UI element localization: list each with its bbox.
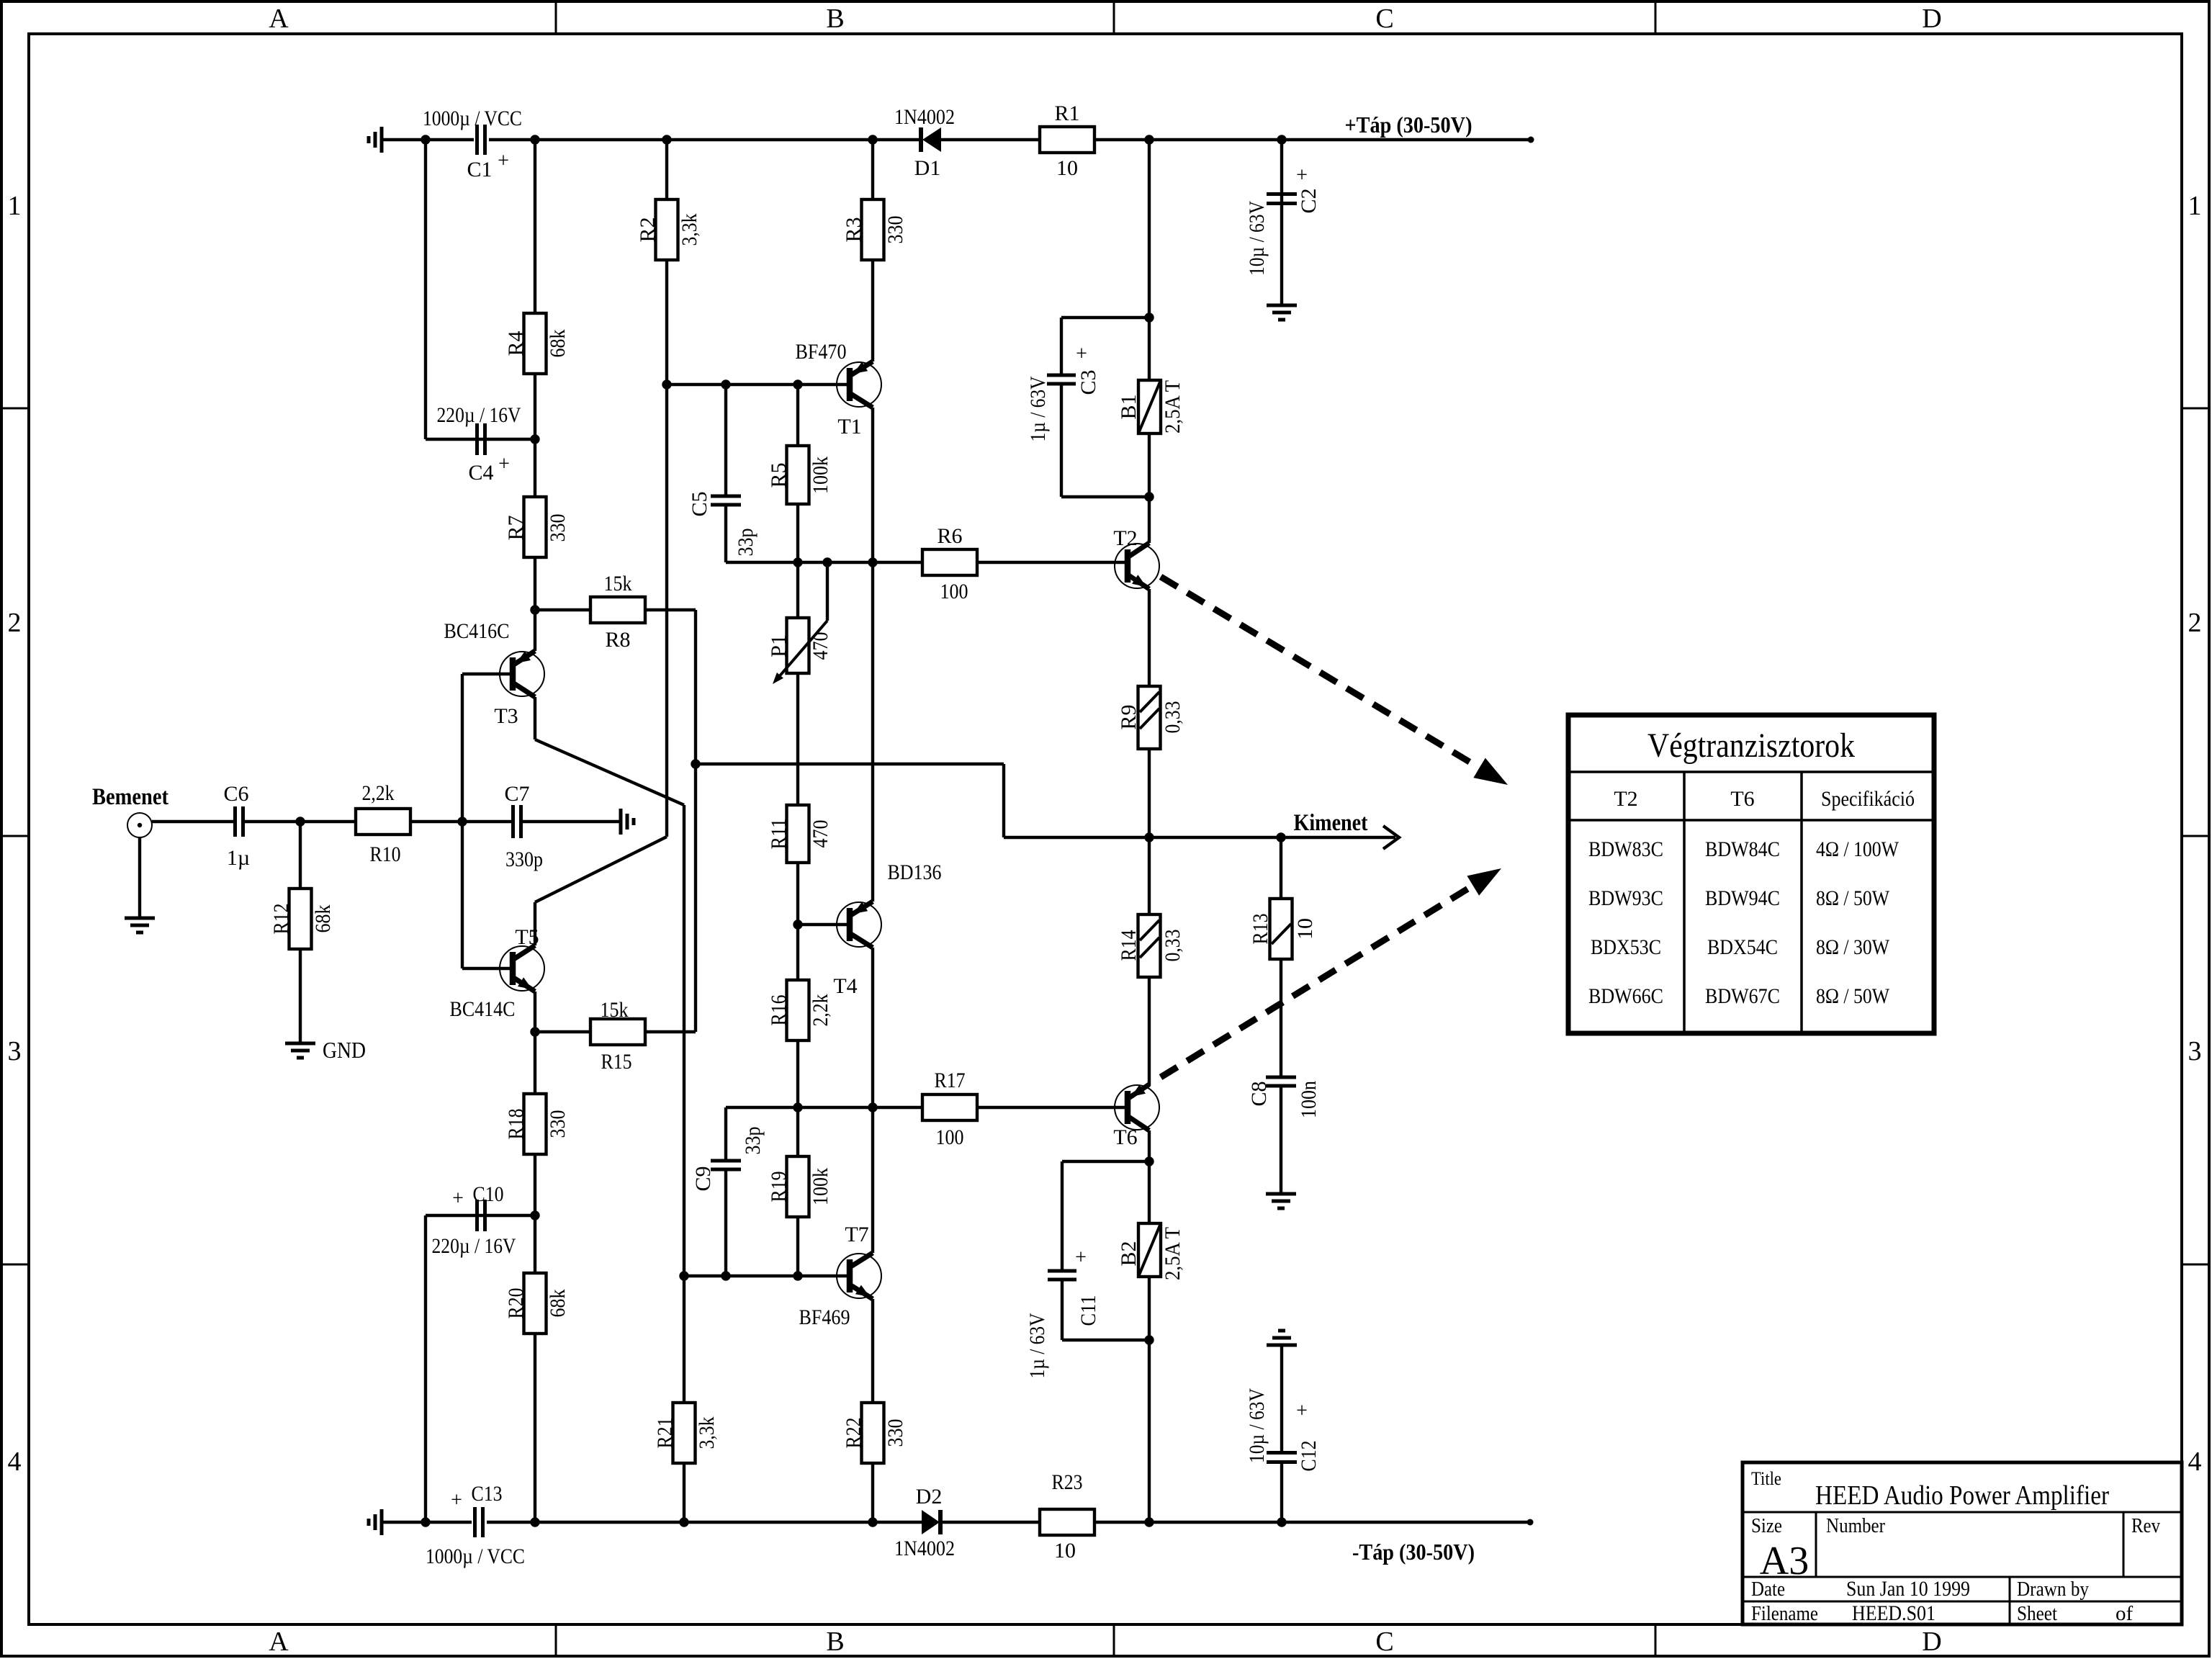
wire T3 base to input node xyxy=(461,674,464,822)
transistor T2 (output driver) xyxy=(1115,543,1159,589)
junction node P1 wiper xyxy=(822,557,832,567)
junction node +rail/R2 xyxy=(662,135,671,144)
wire y781 line to R6 xyxy=(798,561,922,564)
svg-text:1µ / 63V: 1µ / 63V xyxy=(1025,1313,1049,1378)
svg-text:T2: T2 xyxy=(1113,526,1137,550)
wire R11 bottom lead xyxy=(796,863,799,925)
label T3 xyxy=(494,704,518,728)
wire T1 collector up to R3 xyxy=(871,260,874,361)
capacitor C4 plates xyxy=(477,423,485,455)
wire C3 top horizontal xyxy=(1061,316,1149,319)
label C8 xyxy=(1247,1081,1271,1106)
column label B bottom xyxy=(826,1627,844,1657)
wire B1 column top xyxy=(1148,140,1151,380)
fuse B2 body xyxy=(1138,1223,1161,1277)
title block title row divider xyxy=(1743,1511,2182,1514)
label T3 type BC416C xyxy=(444,619,510,643)
svg-text:B: B xyxy=(826,1627,844,1657)
capacitor C13 plates xyxy=(475,1507,483,1537)
svg-text:BDW83C: BDW83C xyxy=(1588,837,1663,861)
svg-text:+: + xyxy=(1075,1246,1087,1269)
svg-text:68k: 68k xyxy=(311,905,335,933)
wire C10 node to R20 xyxy=(534,1215,536,1273)
wire R7 to T3 node xyxy=(534,557,536,610)
svg-text:C13: C13 xyxy=(472,1482,503,1506)
wire +rail ground to C1 xyxy=(382,138,474,141)
label R10 xyxy=(370,842,401,866)
label C5 xyxy=(688,491,711,516)
svg-text:10µ / 63V: 10µ / 63V xyxy=(1245,1388,1269,1463)
svg-text:A: A xyxy=(269,4,289,34)
diode D2 1N4002 xyxy=(922,1510,940,1534)
resistor R7 body xyxy=(524,497,547,557)
title block label Sheet xyxy=(2017,1602,2057,1625)
capacitor C6 plates xyxy=(235,806,243,837)
svg-text:330: 330 xyxy=(884,1419,907,1447)
svg-text:BDW94C: BDW94C xyxy=(1705,886,1780,910)
svg-text:of: of xyxy=(2116,1602,2134,1625)
wire R6 to T2 base xyxy=(977,561,1128,564)
wire C3 bottom horizontal xyxy=(1061,495,1149,498)
svg-text:C1: C1 xyxy=(467,158,492,181)
right band divider 2|3 xyxy=(2182,835,2209,837)
label T5 xyxy=(515,925,539,949)
resistor R15 body xyxy=(590,1019,645,1045)
svg-text:0,33: 0,33 xyxy=(1161,930,1184,962)
svg-text:BDX53C: BDX53C xyxy=(1591,935,1661,959)
svg-text:8Ω / 50W: 8Ω / 50W xyxy=(1816,886,1890,910)
wire T5 collector diagonal xyxy=(535,837,667,902)
resistor R6 body xyxy=(922,549,977,575)
bottom band divider B|C xyxy=(1113,1624,1115,1658)
resistor R18 body xyxy=(524,1094,547,1154)
label C11 value xyxy=(1025,1313,1049,1378)
label C10 polarity + xyxy=(452,1187,464,1210)
label C5 value 33p xyxy=(734,529,757,557)
ground symbol at +rail left end xyxy=(369,127,382,153)
label C13 polarity + xyxy=(451,1489,462,1511)
svg-text:2,2k: 2,2k xyxy=(362,781,395,805)
label C8 value 100n xyxy=(1297,1081,1321,1118)
label C2 value xyxy=(1245,201,1269,276)
right band divider 1|2 xyxy=(2182,408,2209,410)
svg-text:Végtranzisztorok: Végtranzisztorok xyxy=(1647,727,1855,765)
label R19 value 100k xyxy=(809,1168,832,1205)
wire R12 top lead xyxy=(299,822,302,889)
label R23 value 10 xyxy=(1054,1539,1076,1563)
svg-text:R11: R11 xyxy=(767,819,791,850)
wire T1 base line xyxy=(667,383,850,386)
resistor R22 body xyxy=(862,1403,884,1463)
wire C8 to ground xyxy=(1280,1086,1282,1194)
label D1 xyxy=(914,156,941,180)
ground symbol below C2 xyxy=(1267,305,1297,320)
row label 4 left xyxy=(8,1447,22,1477)
wire C10 horizontal xyxy=(426,1214,535,1217)
label C9 xyxy=(691,1166,715,1191)
label T4 xyxy=(833,974,857,998)
label T1 xyxy=(837,415,861,439)
ground symbol right of C7 xyxy=(621,809,634,835)
wire P1 bottom to R11 xyxy=(796,673,799,805)
svg-text:R5: R5 xyxy=(767,462,791,487)
label R17 xyxy=(935,1069,966,1092)
junction node R18/R20/C10 xyxy=(530,1210,539,1220)
wire R19 top lead xyxy=(796,1107,799,1156)
wire C2 stub xyxy=(1280,140,1283,305)
svg-text:+: + xyxy=(498,150,509,172)
svg-text:+Táp (30-50V): +Táp (30-50V) xyxy=(1345,112,1473,138)
label T5 type BC414C xyxy=(450,997,516,1021)
svg-text:Specifikáció: Specifikáció xyxy=(1821,787,1915,811)
title block label Drawn by xyxy=(2017,1578,2089,1601)
label R15 xyxy=(601,1050,632,1074)
resistor R11 body xyxy=(787,805,809,863)
wire T5 base xyxy=(462,967,513,970)
svg-text:8Ω / 50W: 8Ω / 50W xyxy=(1816,984,1890,1008)
svg-text:Date: Date xyxy=(1751,1578,1785,1601)
label R18 value 330 xyxy=(546,1110,570,1138)
wire output to R13 xyxy=(1280,837,1282,899)
capacitor C12 plates xyxy=(1267,1453,1297,1462)
wire R8 left lead xyxy=(535,608,590,611)
ground symbol below C8 xyxy=(1266,1194,1296,1208)
svg-text:100k: 100k xyxy=(809,1168,832,1205)
top band divider C|D xyxy=(1655,1,1657,34)
label R13 value 10 xyxy=(1293,918,1317,940)
capacitor C7 plates xyxy=(513,805,521,838)
svg-text:D1: D1 xyxy=(914,156,941,180)
svg-text:C8: C8 xyxy=(1247,1081,1271,1106)
label R8 xyxy=(605,628,630,652)
wire T2 collector up xyxy=(1148,497,1151,543)
svg-text:3,3k: 3,3k xyxy=(695,1417,719,1449)
svg-text:15k: 15k xyxy=(604,572,632,595)
junction node +rail/R4 xyxy=(530,135,539,144)
bottom band divider A|B xyxy=(555,1624,557,1658)
label C7 value 330p xyxy=(505,848,543,871)
table header T2 xyxy=(1614,787,1637,811)
capacitor C3 plates xyxy=(1047,375,1076,384)
junction node feedback tap xyxy=(691,759,700,768)
wire T2 emitter down xyxy=(1148,589,1151,686)
svg-text:B: B xyxy=(826,4,844,34)
table Vegtranzisztorok outer border xyxy=(1568,715,1934,1033)
svg-text:R13: R13 xyxy=(1249,914,1272,945)
svg-text:T4: T4 xyxy=(833,974,857,998)
svg-text:4: 4 xyxy=(8,1447,22,1477)
label Bemenet xyxy=(92,784,168,810)
svg-text:+: + xyxy=(451,1489,462,1511)
wire T4 emitter down xyxy=(871,948,874,1107)
svg-text:C10: C10 xyxy=(473,1182,504,1206)
right band divider 3|4 xyxy=(2182,1264,2209,1266)
junction node +rail/C2 xyxy=(1277,135,1286,144)
wire -rail D2 to R23 xyxy=(940,1521,1040,1524)
label R16 xyxy=(767,995,791,1026)
wire C11 top horizontal xyxy=(1062,1160,1149,1163)
ground symbol below input xyxy=(125,918,155,932)
transistor T5 BC414C xyxy=(500,945,544,992)
table title row divider xyxy=(1568,770,1934,773)
column label D bottom xyxy=(1922,1627,1941,1657)
table cell 8Ω / 30W xyxy=(1816,935,1890,959)
label GND xyxy=(323,1037,366,1063)
label +Tap rail xyxy=(1345,112,1473,138)
wire C10-branch vertical x591 xyxy=(424,1215,427,1522)
svg-text:+: + xyxy=(1076,343,1087,365)
svg-text:2,5A T: 2,5A T xyxy=(1161,380,1184,433)
table header Specifikacio xyxy=(1821,787,1915,811)
label R13 xyxy=(1249,914,1272,945)
resistor R17 body xyxy=(922,1094,977,1120)
table cell BDW67C xyxy=(1705,984,1780,1008)
svg-text:P1: P1 xyxy=(767,634,791,657)
svg-text:1000µ / VCC: 1000µ / VCC xyxy=(426,1545,525,1568)
wire R15 left lead xyxy=(535,1030,590,1033)
svg-text:R14: R14 xyxy=(1117,930,1141,961)
wire T6 collector down xyxy=(1148,1130,1151,1161)
wire T3 collector vertical x950 xyxy=(683,805,685,1403)
svg-text:3: 3 xyxy=(2188,1036,2202,1066)
svg-text:B1: B1 xyxy=(1117,394,1141,419)
row label 3 right xyxy=(2188,1036,2202,1066)
svg-text:68k: 68k xyxy=(546,330,570,358)
svg-text:2,5A T: 2,5A T xyxy=(1161,1227,1184,1280)
resistor R9 body xyxy=(1138,686,1161,749)
svg-text:330p: 330p xyxy=(505,848,543,871)
junction node -rail/R22 xyxy=(868,1517,877,1527)
wire T5 base to input node xyxy=(461,822,464,968)
resistor R13 body xyxy=(1270,899,1292,959)
capacitor C11 plates xyxy=(1048,1271,1076,1280)
svg-text:R16: R16 xyxy=(767,995,791,1026)
potentiometer P1 wiper arrow xyxy=(773,621,827,684)
label R6 value 100 xyxy=(940,580,968,603)
label R3 value 330 xyxy=(884,216,907,244)
svg-text:R7: R7 xyxy=(504,515,528,540)
svg-text:R20: R20 xyxy=(504,1288,528,1319)
table cell 8Ω / 50W xyxy=(1816,886,1890,910)
transistor T3 BC416C xyxy=(500,651,544,697)
label R7 value 330 xyxy=(546,514,570,542)
label C9 value 33p xyxy=(741,1127,765,1155)
svg-text:330: 330 xyxy=(546,514,570,542)
svg-text:+: + xyxy=(1296,164,1308,186)
svg-text:1: 1 xyxy=(8,191,22,221)
svg-text:2: 2 xyxy=(2188,608,2202,638)
label R15 value 15k xyxy=(601,998,629,1022)
transistor T1 BF470 xyxy=(837,361,881,408)
wire +rail C1 to D1 xyxy=(489,138,921,141)
svg-text:15k: 15k xyxy=(601,998,629,1022)
wire C5 bottom stub xyxy=(724,505,727,562)
left band divider 1|2 xyxy=(1,408,29,410)
junction node C11 bottom xyxy=(1144,1335,1154,1344)
dashed arrow from T6 to table xyxy=(1161,868,1501,1077)
svg-text:+: + xyxy=(1296,1400,1308,1422)
junction node R2/T1 base line xyxy=(662,379,671,389)
label R12 value 68k xyxy=(311,905,335,933)
label R2 xyxy=(636,217,660,242)
label C7 xyxy=(504,782,529,806)
wire R10 to T-base node xyxy=(410,820,462,823)
title block label Date xyxy=(1751,1578,1785,1601)
wire P1 wiper vertical xyxy=(826,562,829,621)
svg-text:BDX54C: BDX54C xyxy=(1707,935,1778,959)
junction node T1 emitter line xyxy=(868,557,877,567)
wire T3 base xyxy=(462,673,513,675)
label R20 xyxy=(504,1288,528,1319)
svg-text:T1: T1 xyxy=(837,415,861,439)
resistor R1 body xyxy=(1040,127,1094,153)
label T6 xyxy=(1113,1125,1137,1149)
svg-text:R8: R8 xyxy=(605,628,630,652)
wire feedback horizontal y1061 xyxy=(696,763,1004,765)
label R14 xyxy=(1117,930,1141,961)
table cell BDW93C xyxy=(1588,886,1663,910)
wire R22 to -rail xyxy=(871,1463,874,1522)
capacitor C9 plates xyxy=(711,1161,741,1169)
wire T7 collector up xyxy=(871,1107,874,1253)
label T4 type BD136 xyxy=(888,860,942,884)
table cell BDW94C xyxy=(1705,886,1780,910)
title block outer border xyxy=(1743,1462,2182,1624)
junction node +rail/C4 branch xyxy=(421,135,430,144)
svg-text:BD136: BD136 xyxy=(888,860,942,884)
resistor R3 body xyxy=(862,199,884,260)
label T7 type BF469 xyxy=(799,1305,850,1329)
svg-text:470: 470 xyxy=(809,820,832,848)
svg-text:Filename: Filename xyxy=(1751,1602,1818,1625)
label R18 xyxy=(504,1109,528,1140)
label R9 xyxy=(1117,704,1141,729)
svg-text:R2: R2 xyxy=(636,217,660,242)
label C1 xyxy=(467,158,492,181)
column label A bottom xyxy=(269,1627,289,1657)
junction node T3 emitter/R7/R8 xyxy=(530,605,539,614)
svg-text:C6: C6 xyxy=(223,782,248,806)
svg-text:4Ω / 100W: 4Ω / 100W xyxy=(1816,837,1899,861)
transistor T6 (output driver) xyxy=(1115,1084,1159,1130)
junction node -rail/C10 branch xyxy=(421,1517,430,1527)
svg-text:T3: T3 xyxy=(494,704,518,728)
svg-text:-Táp (30-50V): -Táp (30-50V) xyxy=(1352,1539,1475,1565)
label C11 polarity + xyxy=(1075,1246,1087,1269)
row label 3 left xyxy=(8,1036,22,1066)
svg-text:100: 100 xyxy=(936,1125,964,1149)
wire C4 node to R7 xyxy=(534,439,536,497)
wire R8 right lead xyxy=(645,608,696,611)
label D2 part number xyxy=(894,1537,955,1560)
svg-text:R4: R4 xyxy=(504,331,528,356)
svg-text:4: 4 xyxy=(2188,1447,2202,1477)
ground symbol above C12 xyxy=(1267,1331,1297,1345)
label -Tap rail xyxy=(1352,1539,1475,1565)
label R11 xyxy=(767,819,791,850)
resistor R23 body xyxy=(1040,1509,1094,1535)
resistor R20 body xyxy=(524,1273,547,1334)
svg-text:Sheet: Sheet xyxy=(2017,1602,2057,1625)
label C4 value xyxy=(437,403,521,427)
left band divider 3|4 xyxy=(1,1264,29,1266)
wire C6 to R10 xyxy=(243,820,356,823)
svg-text:BDW93C: BDW93C xyxy=(1588,886,1663,910)
svg-text:8Ω / 30W: 8Ω / 30W xyxy=(1816,935,1890,959)
wire R9 to output xyxy=(1148,749,1151,837)
label R20 value 68k xyxy=(546,1290,570,1318)
svg-text:1N4002: 1N4002 xyxy=(894,1537,955,1560)
label C4 polarity + xyxy=(498,453,510,475)
table cell BDW83C xyxy=(1588,837,1663,861)
svg-text:R1: R1 xyxy=(1054,102,1079,125)
output arrowhead kimenet xyxy=(1383,826,1399,849)
title block drawnby divider xyxy=(2009,1577,2011,1624)
svg-text:T2: T2 xyxy=(1614,787,1637,811)
wire C3 left vertical upper xyxy=(1060,318,1063,375)
column label C top xyxy=(1375,4,1393,34)
svg-text:GND: GND xyxy=(323,1037,366,1063)
ground symbol at -rail left end xyxy=(369,1509,382,1535)
title block size/number divider xyxy=(1815,1512,1817,1577)
svg-text:R15: R15 xyxy=(601,1050,632,1074)
capacitor C8 plates xyxy=(1266,1077,1296,1086)
svg-text:BC416C: BC416C xyxy=(444,619,510,643)
label B1 rating xyxy=(1161,380,1184,433)
label T1 type BF470 xyxy=(796,340,847,364)
potentiometer P1 body xyxy=(787,618,809,673)
wire C5 top stub xyxy=(724,385,727,497)
svg-text:100n: 100n xyxy=(1297,1081,1321,1118)
label R21 xyxy=(653,1418,677,1449)
svg-text:BDW84C: BDW84C xyxy=(1705,837,1780,861)
junction node B1/C3/T2 collector xyxy=(1144,492,1154,501)
svg-text:R12: R12 xyxy=(269,904,293,935)
resistor R16 body xyxy=(787,980,809,1040)
label R9 value 0,33 xyxy=(1161,701,1184,734)
resistor R8 body xyxy=(590,597,645,623)
label R4 xyxy=(504,331,528,356)
column label D top xyxy=(1922,4,1941,34)
junction node T4 base/R11/R16 xyxy=(793,920,802,929)
svg-text:R6: R6 xyxy=(937,524,962,548)
label R21 value 3,3k xyxy=(695,1417,719,1449)
svg-text:2,2k: 2,2k xyxy=(809,994,832,1027)
-rail end dot xyxy=(1527,1519,1534,1526)
top band divider B|C xyxy=(1113,1,1115,34)
label C3 xyxy=(1076,369,1100,395)
wire C3 left vertical lower xyxy=(1060,384,1063,497)
wire -rail R23 to end xyxy=(1094,1521,1530,1524)
svg-text:100: 100 xyxy=(940,580,968,603)
svg-text:10: 10 xyxy=(1054,1539,1076,1563)
row label 2 left xyxy=(8,608,22,638)
diode D1 1N4002 xyxy=(921,127,941,152)
wire R21 to -rail xyxy=(683,1463,685,1522)
wire R2 to T1 base line xyxy=(665,260,668,385)
wire +rail D1 to R1 xyxy=(941,138,1040,141)
svg-text:R21: R21 xyxy=(653,1418,677,1449)
junction node output/R13 xyxy=(1276,832,1285,842)
svg-text:33p: 33p xyxy=(734,529,757,557)
wire base node to C7 xyxy=(462,820,513,823)
+rail end dot xyxy=(1528,137,1534,143)
wire R15 right lead xyxy=(645,1030,696,1033)
wire C9 bottom stub xyxy=(724,1169,727,1276)
title block label Rev xyxy=(2131,1514,2160,1537)
wire P1 top lead xyxy=(796,562,799,618)
wire input connector to ground xyxy=(138,837,141,918)
